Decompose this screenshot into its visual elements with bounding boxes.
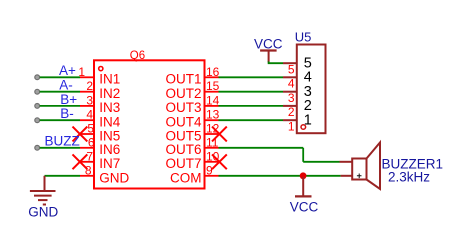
buzzer LS1 pin stub (bottom, +) — [341, 175, 353, 177]
wire OUT6 to buzzer (segment 1 horizontal) — [219, 147, 304, 149]
buzzer body rectangle — [352, 159, 366, 180]
no-connect X on pin 5 — [73, 127, 88, 142]
svg-text:BUZZ: BUZZ — [45, 134, 80, 149]
pin 12 stub — [205, 133, 219, 135]
svg-text:OUT3: OUT3 — [165, 100, 201, 115]
pin 14 stub — [205, 105, 219, 107]
junction dot on COM wire — [300, 172, 307, 179]
pin 7 stub — [80, 161, 94, 163]
VCC power symbol bar (bottom) — [295, 195, 312, 197]
svg-text:8: 8 — [85, 163, 92, 177]
U5 pin 4 stub — [283, 76, 297, 78]
ground symbol stem — [44, 176, 46, 191]
no-connect X on pin 12 — [212, 127, 227, 142]
svg-text:Q6: Q6 — [130, 50, 145, 62]
U5 pin 1 indicator circle — [301, 125, 306, 130]
svg-text:2: 2 — [86, 79, 93, 93]
svg-text:2.3kHz: 2.3kHz — [388, 169, 430, 184]
svg-text:15: 15 — [206, 79, 220, 93]
VCC power symbol stem (bottom) — [302, 177, 304, 196]
wire B- to IN4 — [40, 119, 80, 121]
wire GND to pin 8 — [45, 175, 81, 177]
svg-text:4: 4 — [86, 108, 93, 122]
pin 8 stub — [80, 175, 94, 177]
svg-text:1: 1 — [288, 119, 295, 133]
svg-text:13: 13 — [206, 108, 220, 122]
U5 pin 3 stub — [283, 91, 297, 93]
pin 2 stub — [80, 91, 94, 93]
buzzer LS1 pin stub (top) — [340, 161, 353, 163]
wire A+ to IN1 — [40, 76, 80, 78]
pin 1 stub — [80, 76, 94, 78]
connector U5 box — [297, 45, 326, 134]
svg-text:GND: GND — [99, 170, 129, 185]
ground symbol bar 3 — [38, 199, 48, 201]
ground symbol bar 1 — [30, 190, 56, 192]
wire OUT6 to buzzer (segment 3 horizontal) — [303, 161, 339, 163]
pin 9 stub — [205, 175, 219, 177]
VCC power symbol stem (top) — [268, 51, 270, 63]
svg-text:IN5: IN5 — [99, 128, 120, 143]
no-connect X on pin 10 — [212, 154, 227, 169]
svg-text:3: 3 — [288, 91, 295, 105]
svg-text:OUT4: OUT4 — [165, 115, 201, 130]
connector dot pin A- — [35, 89, 40, 94]
pin 16 stub — [205, 76, 219, 78]
svg-text:IN4: IN4 — [99, 115, 121, 130]
svg-text:OUT5: OUT5 — [165, 128, 201, 143]
wire OUT3 to U5 pin 2 — [219, 105, 284, 107]
wire OUT1 to U5 pin 4 — [219, 76, 284, 78]
svg-text:VCC: VCC — [254, 37, 283, 52]
svg-text:VCC: VCC — [290, 199, 319, 214]
pin 6 stub — [80, 147, 94, 149]
svg-text:B+: B+ — [60, 92, 77, 107]
pin 11 stub — [205, 147, 219, 149]
svg-text:OUT1: OUT1 — [165, 72, 201, 87]
U5 pin 2 stub — [283, 105, 297, 107]
pin 10 stub — [205, 161, 219, 163]
connector dot pin BUZZ — [35, 145, 40, 150]
pin 4 stub — [80, 119, 94, 121]
pin 13 stub — [205, 119, 219, 121]
connector dot pin A+ — [35, 75, 40, 80]
svg-text:IN2: IN2 — [99, 86, 120, 101]
svg-text:COM: COM — [170, 170, 202, 185]
svg-text:5: 5 — [87, 122, 94, 136]
svg-text:B-: B- — [60, 106, 74, 121]
wire OUT6 to buzzer (segment 2 vertical) — [302, 148, 304, 162]
wire OUT4 to U5 pin 1 — [219, 119, 284, 121]
VCC power symbol bar (top) — [260, 49, 277, 51]
wire A- to IN2 — [40, 91, 80, 93]
wire VCC to U5 pin 5 — [269, 61, 283, 63]
svg-text:OUT6: OUT6 — [165, 142, 201, 157]
wire B+ to IN3 — [40, 105, 80, 107]
U5 pin 1 stub — [283, 119, 297, 121]
ground symbol bar 4 — [43, 204, 46, 206]
svg-text:16: 16 — [206, 65, 220, 79]
pin 5 stub — [80, 133, 94, 135]
svg-text:IN7: IN7 — [99, 156, 120, 171]
connector dot pin B+ — [35, 104, 40, 109]
svg-text:9: 9 — [206, 163, 213, 177]
svg-text:14: 14 — [206, 93, 220, 107]
svg-text:A+: A+ — [59, 63, 76, 78]
svg-text:IN6: IN6 — [99, 142, 120, 157]
svg-text:OUT7: OUT7 — [165, 156, 201, 171]
pin 3 stub — [80, 105, 94, 107]
U5 pin 5 stub — [283, 62, 297, 64]
connector dot pin B- — [35, 118, 40, 123]
svg-text:7: 7 — [86, 149, 93, 163]
svg-text:5: 5 — [288, 62, 295, 76]
svg-text:OUT2: OUT2 — [165, 86, 201, 101]
svg-text:IN3: IN3 — [99, 100, 120, 115]
svg-text:A-: A- — [59, 78, 73, 93]
IC U/Q6 body outline — [94, 60, 205, 188]
no-connect X on pin 7 — [73, 154, 88, 169]
pin 15 stub — [205, 91, 219, 93]
svg-text:GND: GND — [28, 205, 58, 220]
svg-text:3: 3 — [86, 93, 93, 107]
wire COM to buzzer — [219, 175, 341, 177]
svg-text:IN1: IN1 — [99, 72, 120, 87]
svg-text:4: 4 — [288, 77, 295, 91]
svg-text:2: 2 — [288, 105, 295, 119]
svg-text:6: 6 — [88, 135, 95, 149]
wire OUT2 to U5 pin 3 — [219, 91, 284, 93]
buzzer horn — [367, 143, 381, 189]
buzzer plus sign — [357, 174, 362, 179]
wire BUZZ to IN6 — [40, 147, 80, 149]
svg-text:U5: U5 — [295, 30, 312, 45]
pin-1 indicator dot inside Q6 — [99, 67, 103, 71]
ground symbol bar 2 — [34, 195, 52, 197]
